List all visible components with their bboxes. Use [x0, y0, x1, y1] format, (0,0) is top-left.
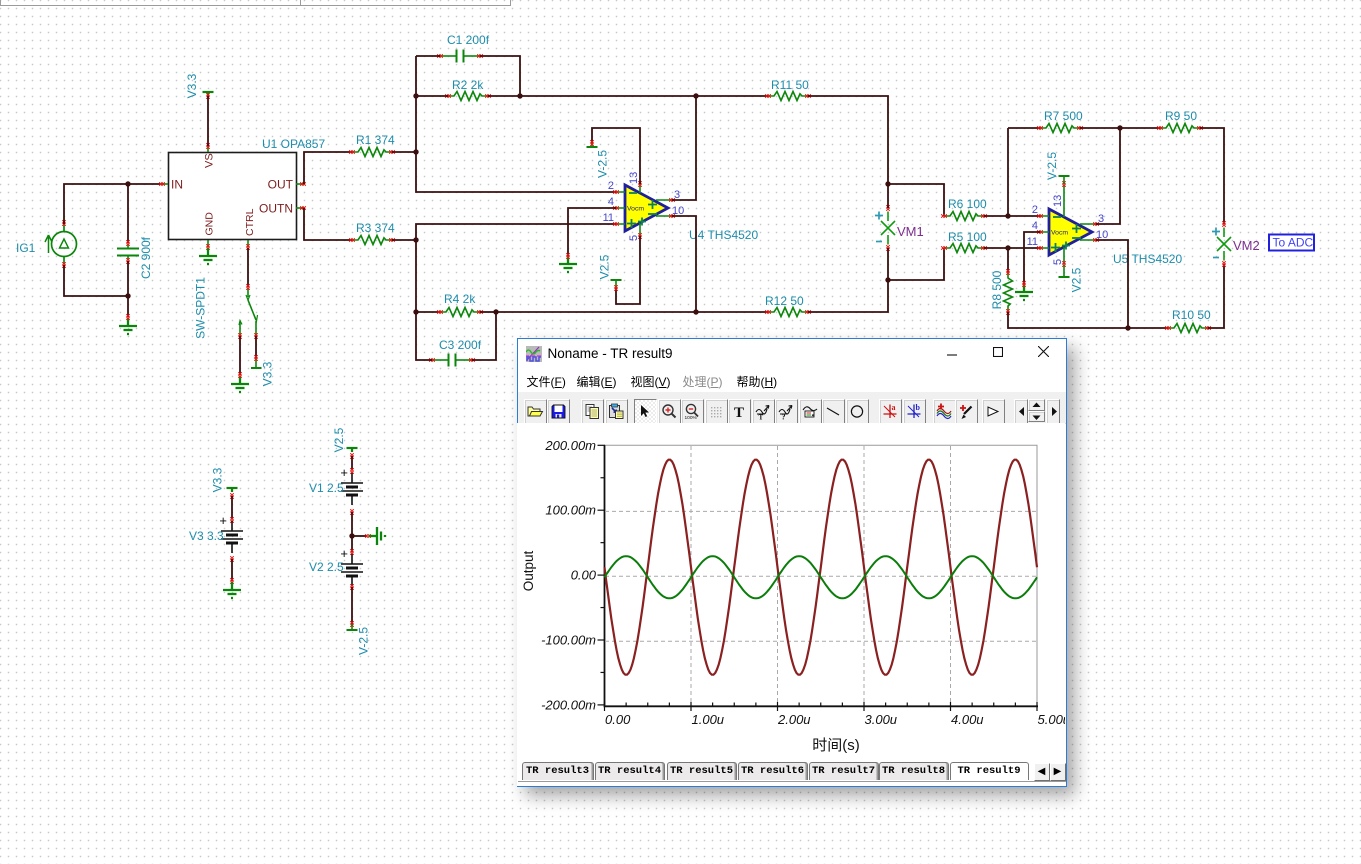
svg-text:R6 100: R6 100 [948, 197, 987, 211]
grid button [705, 399, 728, 424]
wire C2 to ground [127, 261, 129, 317]
svg-text:2: 2 [1032, 204, 1038, 216]
svg-text:4: 4 [608, 196, 614, 208]
wire R7 to R9 node [1080, 127, 1160, 129]
paste button [605, 399, 628, 424]
svg-text:R12 50: R12 50 [765, 294, 804, 308]
svg-text:V-2.5: V-2.5 [596, 150, 610, 178]
wire R9 to VM2 [1200, 128, 1224, 224]
page spinner button [1028, 399, 1045, 411]
svg-text:13: 13 [628, 172, 640, 184]
svg-text:V-2.5: V-2.5 [357, 627, 371, 655]
svg-text:R7 500: R7 500 [1044, 109, 1083, 123]
svg-text:V3.3: V3.3 [211, 467, 225, 492]
wire R4 left lead [416, 311, 440, 313]
junction battery mid node [349, 533, 354, 538]
wire node A vertical / to U4 pin2 [416, 56, 616, 192]
copy button [581, 399, 604, 424]
svg-text:Vocm: Vocm [627, 206, 644, 213]
supply V3.3 above U1 [203, 92, 214, 99]
annotation To ADC [1269, 235, 1314, 251]
resistor R8 [1004, 248, 1013, 315]
cursor b button [903, 399, 926, 424]
U1 pin GND [204, 212, 216, 250]
svg-text:4.00u: 4.00u [951, 712, 984, 727]
y axis ticks [597, 445, 605, 705]
cursor button (selected) [634, 399, 657, 424]
svg-text:V3.3: V3.3 [185, 73, 199, 98]
svg-text:100.00m: 100.00m [545, 503, 596, 518]
ground for U5 Vocm [1015, 281, 1033, 300]
junction n1a [125, 181, 130, 186]
wire R10 to VM2 bottom [1208, 264, 1224, 328]
minimize button [938, 339, 968, 367]
wire U5 pin10 down [1096, 240, 1128, 328]
svg-text:R3 374: R3 374 [356, 221, 395, 235]
resistor R5 [941, 230, 987, 253]
resistor R11 [765, 78, 811, 101]
svg-text:1.00u: 1.00u [691, 712, 724, 727]
label V2 2.5 [309, 560, 344, 574]
wire R7 left lead [1008, 127, 1040, 129]
voltmeter VM2 [1212, 221, 1231, 267]
svg-text:-100.00m: -100.00m [541, 633, 596, 648]
wire R3 to node B [392, 239, 416, 241]
svg-text:?: ? [782, 413, 786, 421]
save button [547, 399, 570, 424]
battery V3 3.3 [219, 488, 243, 598]
junction n 696 bottom [693, 309, 698, 314]
svg-text:+: + [340, 465, 348, 480]
svg-text:11: 11 [1027, 236, 1038, 248]
junction node B2 [413, 309, 418, 314]
wire VS to V3.3 [207, 96, 209, 146]
close button [1029, 339, 1059, 367]
tab TR result6 [738, 762, 808, 780]
svg-text:5: 5 [1052, 259, 1064, 265]
svg-text:R4 2k: R4 2k [444, 292, 476, 306]
label VM2 [1233, 238, 1260, 253]
junction n r6 [1005, 213, 1010, 218]
wire CTRL to switch [247, 248, 249, 287]
window icon [526, 346, 542, 362]
ground at battery mid node [352, 527, 385, 545]
menu bar [518, 367, 1066, 392]
battery V1 2.5 [340, 448, 363, 536]
maximize button [983, 339, 1013, 367]
supply V-2.5 for U5 [1059, 176, 1070, 184]
resistor R12 [765, 294, 811, 317]
tab TR result8 [879, 762, 949, 780]
page right button [1046, 399, 1060, 424]
wire R1 to node A [392, 151, 416, 153]
svg-text:C1 200f: C1 200f [447, 33, 490, 47]
svg-text:CTRL: CTRL [244, 208, 256, 236]
svg-text:5: 5 [628, 235, 640, 241]
page left button [1014, 399, 1028, 424]
svg-text:Vocm: Vocm [1051, 230, 1068, 237]
horizontal gridlines [605, 511, 1037, 641]
red output curve [604, 460, 1037, 675]
U1 pin IN [159, 178, 183, 192]
label C1 200f [447, 33, 490, 47]
svg-text:3.00u: 3.00u [864, 712, 897, 727]
tab scroll right [1050, 763, 1066, 781]
current source IG1 [45, 220, 77, 268]
label SW-SPDT1 [194, 277, 208, 339]
vertical gridlines [691, 446, 951, 706]
svg-text:Output: Output [521, 550, 536, 591]
svg-text:2: 2 [608, 180, 614, 192]
svg-text:VS: VS [204, 153, 216, 168]
svg-text:U1 OPA857: U1 OPA857 [262, 137, 325, 151]
wire U4 pin10 to bottom rail [672, 216, 696, 312]
x axis labels [605, 712, 1070, 727]
wire IG1 bottom [64, 265, 128, 296]
wire switch left pole down [239, 336, 241, 375]
wire C3 left corner [416, 312, 432, 360]
U1 pin OUT [268, 178, 306, 192]
label V-2.5 U4 [596, 150, 610, 178]
svg-text:R2 2k: R2 2k [452, 78, 484, 92]
tab TR result7 [809, 762, 879, 780]
tab TR result9 (selected) [950, 762, 1029, 780]
junction n1b [125, 293, 130, 298]
U1 pin VS [204, 143, 216, 168]
wire U4 pin5 to V2.5 [616, 236, 640, 304]
svg-text:C2 900f: C2 900f [139, 236, 153, 279]
svg-text:SW-SPDT1: SW-SPDT1 [194, 277, 208, 339]
wire OUTN jog to R3 [304, 208, 352, 240]
circle button [846, 399, 869, 424]
window title bar [518, 339, 1066, 367]
junction nA top [413, 93, 418, 98]
supply V3.3 below switch [251, 355, 262, 368]
resistor R4 [437, 292, 483, 317]
wire R12 to VM1 bottom [808, 280, 888, 312]
svg-text:T: T [758, 414, 763, 421]
capacitor C3 [429, 354, 475, 367]
wire bottom rail [496, 311, 768, 313]
zoom out button [681, 399, 704, 424]
tab scroll left [1034, 763, 1050, 781]
tab TR result3 [522, 762, 594, 780]
junction n 696 top [693, 93, 698, 98]
svg-text:C3 200f: C3 200f [439, 338, 482, 352]
plot frame [604, 445, 1038, 706]
cursor a button [879, 399, 902, 424]
label V2.5 stack [332, 427, 346, 452]
svg-text:R10 50: R10 50 [1172, 308, 1211, 322]
label V1 2.5 [309, 481, 344, 495]
wire R8 to bottom rail [1008, 312, 1168, 328]
resistor R6 [941, 197, 987, 221]
op-amp U4 THS4520 [603, 172, 685, 241]
ground for U4 Vocm [559, 253, 577, 272]
x axis ticks [604, 702, 1037, 711]
result tabs [518, 761, 1066, 782]
capacitor C2 [117, 184, 139, 264]
label V3.3 switch [261, 361, 275, 386]
resistor R10 [1165, 308, 1211, 333]
label C3 200f [439, 338, 482, 352]
wire C3 right corner [472, 312, 496, 360]
voltmeter VM1 [875, 205, 895, 251]
label U5 THS4520 [1113, 252, 1182, 266]
window toolbar [518, 392, 1066, 424]
svg-text:U5 THS4520: U5 THS4520 [1113, 252, 1182, 266]
label V2.5 U4 [598, 254, 612, 279]
supply V2.5 for U5 [1059, 265, 1070, 277]
wire OUT jog to R1 [304, 152, 352, 184]
label V3.3 top [185, 73, 199, 98]
svg-text:4: 4 [1032, 220, 1038, 232]
svg-text:2.00u: 2.00u [777, 712, 811, 727]
probe button [955, 399, 978, 424]
U1 pin CTRL [244, 208, 256, 249]
svg-text:V1 2.5: V1 2.5 [309, 481, 344, 495]
wire R7 branch [1007, 128, 1009, 216]
op-amp U1 OPA857 box [169, 153, 297, 240]
ground below U1 GND pin [199, 248, 217, 264]
U1 pin OUTN [259, 202, 306, 216]
svg-text:IN: IN [171, 178, 183, 192]
wire U5 pin3 up [1096, 128, 1120, 224]
resistor R1 [349, 133, 395, 157]
svg-text:5.00u: 5.00u [1037, 712, 1065, 727]
svg-text:GND: GND [204, 212, 216, 236]
svg-text:V2 2.5: V2 2.5 [309, 560, 344, 574]
label V3.3 batt [211, 467, 225, 492]
svg-text:+: + [219, 513, 227, 528]
svg-text:V3.3: V3.3 [261, 361, 275, 386]
svg-text:0.00: 0.00 [605, 712, 631, 727]
label V-2.5 U5 [1045, 152, 1059, 180]
label V2.5 U5 [1070, 267, 1084, 292]
resistor R9 [1157, 109, 1203, 133]
label V3 3.3 [189, 529, 224, 543]
wire U4 pin4 to ground [568, 208, 616, 256]
wire C1 right corner [480, 56, 520, 96]
zoom in button [658, 399, 681, 424]
label C2 900f [139, 236, 153, 279]
label U1 OPA857 [262, 137, 325, 151]
svg-text:R9 50: R9 50 [1165, 109, 1197, 123]
wire IG1 top to node [64, 184, 160, 224]
label V-2.5 stack [357, 627, 371, 655]
wire node A to R2 [416, 95, 448, 97]
junction n r7r9 [1117, 125, 1122, 130]
svg-text:13: 13 [1052, 195, 1064, 207]
svg-text:V2.5: V2.5 [598, 254, 612, 279]
svg-text:a: a [892, 403, 896, 412]
ground below switch [231, 372, 249, 392]
svg-text:b: b [915, 403, 920, 412]
svg-text:R11 50: R11 50 [771, 78, 809, 92]
switch SW-SPDT1 [238, 284, 258, 339]
svg-text:V3 3.3: V3 3.3 [189, 529, 224, 543]
wire VM1 top wire [887, 184, 889, 208]
svg-text:+: + [340, 546, 348, 561]
legend button [799, 399, 822, 424]
label VM1 [897, 224, 924, 239]
wire R6 to U5 [984, 215, 1040, 217]
wire C1 left lead [416, 55, 440, 57]
svg-text:V2.5: V2.5 [332, 427, 346, 452]
svg-text:0.00: 0.00 [570, 568, 596, 583]
label U4 THS4520 [689, 228, 758, 242]
resistor R2 [445, 78, 491, 101]
junction n vm1 top [885, 181, 890, 186]
tab TR result5 [667, 762, 737, 780]
svg-text:R8 500: R8 500 [990, 270, 1004, 309]
supply V-2.5 for U4 [587, 140, 598, 147]
wire R5 to U5 [984, 247, 1040, 249]
line button [822, 399, 845, 424]
wire R2 to top rail [488, 95, 768, 97]
junction n vm1 bot [885, 277, 890, 282]
supply V2.5 for U4 [611, 280, 622, 291]
junction n 520 [517, 93, 522, 98]
svg-text:11: 11 [603, 212, 614, 224]
svg-text:R1 374: R1 374 [356, 133, 395, 147]
plot client area [517, 423, 1065, 786]
wire to R6 [888, 184, 944, 216]
svg-text:IG1: IG1 [16, 241, 36, 255]
svg-text:200.00m: 200.00m [544, 438, 596, 453]
svg-text:V2.5: V2.5 [1070, 267, 1084, 292]
svg-text:-200.00m: -200.00m [541, 697, 596, 712]
svg-text:T: T [734, 405, 744, 420]
axis T button [752, 399, 775, 424]
capacitor C1 [437, 50, 483, 63]
svg-text:R5 100: R5 100 [948, 230, 987, 244]
svg-text:VM2: VM2 [1233, 238, 1260, 253]
wire node B vertical / to U4 pin11 [416, 224, 616, 312]
wire R11 to VM1 top [808, 96, 888, 184]
open button [524, 399, 547, 424]
svg-text:100%: 100% [685, 415, 698, 420]
marker button [982, 399, 1005, 424]
junction node B [413, 237, 418, 242]
wire R4 right lead [480, 311, 496, 313]
y axis labels [541, 438, 597, 713]
resistor R7 [1037, 109, 1083, 133]
wire to R5 [888, 248, 944, 280]
tab TR result4 [595, 762, 665, 780]
top toolbar remnant strip [0, 0, 511, 6]
junction node A [413, 149, 418, 154]
wire U5 pin4 to ground [1024, 232, 1040, 284]
ground below C2 [119, 314, 137, 334]
junction n r5 [1005, 245, 1010, 250]
wire U4 pin13 to V-2.5 [592, 128, 640, 184]
wire VM1 bottom wire [887, 248, 889, 280]
green output curve [604, 556, 1037, 598]
junction n r8 bottom [1125, 325, 1130, 330]
svg-text:OUTN: OUTN [259, 202, 293, 216]
battery V2 2.5 [340, 536, 363, 630]
svg-text:V-2.5: V-2.5 [1045, 152, 1059, 180]
wire U4 pin3 to top rail [672, 96, 696, 200]
svg-text:时间(s): 时间(s) [812, 737, 860, 754]
text button [728, 399, 751, 424]
op-amp U5 THS4520 [1027, 181, 1109, 267]
svg-text:VM1: VM1 [897, 224, 924, 239]
svg-text:To ADC: To ADC [1273, 236, 1314, 250]
curves button [933, 399, 956, 424]
label R8 500 [990, 270, 1004, 309]
resistor R3 [349, 221, 395, 245]
plot result window [517, 338, 1067, 787]
label IG1 [16, 241, 36, 255]
junction node C2 [493, 309, 498, 314]
svg-text:OUT: OUT [268, 178, 294, 192]
wire switch right pole down [255, 336, 257, 358]
axis ? button [775, 399, 798, 424]
svg-text:U4 THS4520: U4 THS4520 [689, 228, 758, 242]
